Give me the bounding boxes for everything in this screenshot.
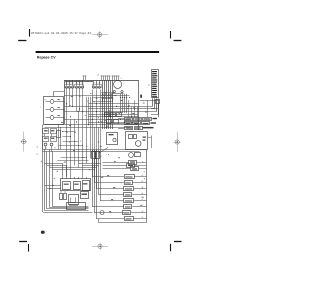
svg-text:0579864.qxd 08.06.2005 15:37: 0579864.qxd 08.06.2005 15:37 Page 63 [31,31,91,35]
svg-text:Repase CV: Repase CV [37,56,56,60]
svg-text:g3: g3 [142,211,144,213]
svg-text:E1: E1 [45,100,47,102]
svg-text:ab: ab [97,74,99,76]
svg-text:15: 15 [54,148,56,150]
svg-text:d4: d4 [142,193,144,195]
svg-text:h2: h2 [142,217,144,219]
svg-text:bw: bw [37,154,39,156]
svg-text:a: a [40,107,41,109]
svg-text:30: 30 [149,84,151,86]
svg-text:a2: a2 [142,175,144,177]
svg-text:b3: b3 [142,181,144,183]
svg-text:56: 56 [37,147,39,149]
svg-text:e2: e2 [142,199,144,201]
svg-text:a: a [124,83,125,85]
svg-text:4: 4 [121,78,122,80]
svg-text:30: 30 [45,148,47,150]
